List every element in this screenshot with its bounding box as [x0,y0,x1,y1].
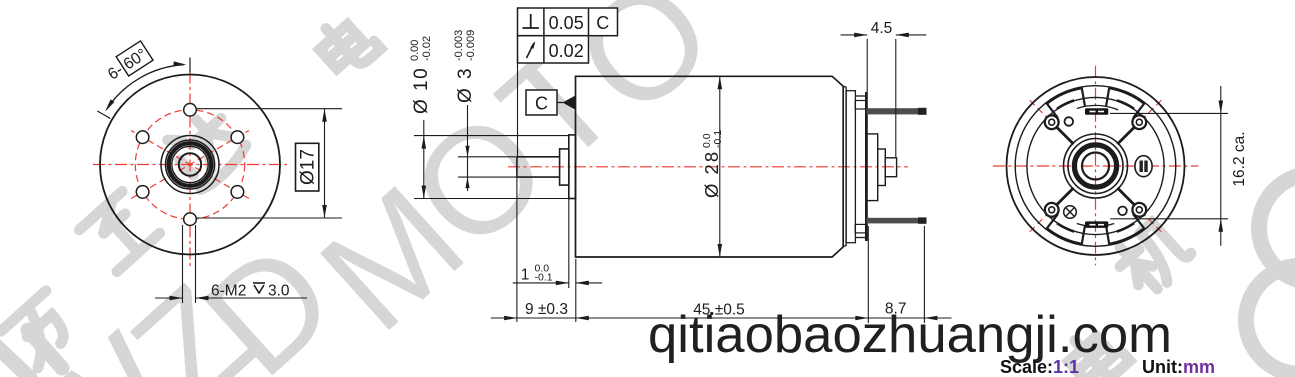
svg-text:Ø 28: Ø 28 [701,150,722,198]
svg-text:4.5: 4.5 [871,20,893,37]
svg-text:6-M2: 6-M2 [211,283,246,300]
svg-text:C: C [535,94,548,114]
svg-text:Unit:mm: Unit:mm [1142,357,1215,377]
svg-text:Ø 3: Ø 3 [455,66,476,103]
svg-text:-0.009: -0.009 [465,30,477,61]
svg-text:Ø17: Ø17 [298,149,319,185]
svg-text:qitiaobaozhuangji.com: qitiaobaozhuangji.com [648,305,1172,363]
svg-text:1: 1 [521,267,530,284]
svg-text:0.05: 0.05 [549,13,584,33]
svg-text:0.00: 0.00 [409,40,421,61]
svg-text:9 ±0.3: 9 ±0.3 [525,301,568,318]
svg-text:Ø 10: Ø 10 [411,67,432,114]
svg-text:3.0: 3.0 [268,283,290,300]
svg-text:0.02: 0.02 [549,41,584,61]
svg-text:-0.003: -0.003 [453,30,465,61]
svg-text:16.2 ca.: 16.2 ca. [1231,131,1248,186]
svg-text:C: C [596,13,609,33]
svg-text:-0.1: -0.1 [535,272,553,284]
svg-text:Scale:1:1: Scale:1:1 [1000,357,1079,377]
svg-text:-0.1: -0.1 [712,130,724,148]
svg-text:-0.02: -0.02 [421,36,433,61]
